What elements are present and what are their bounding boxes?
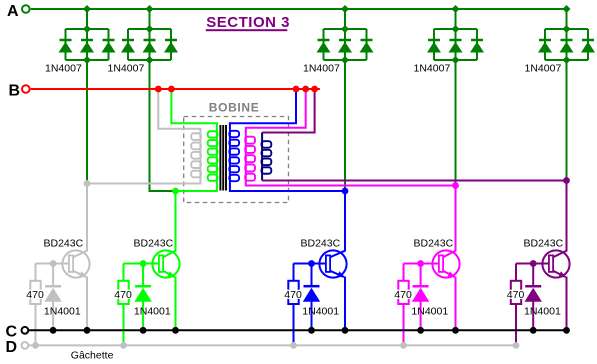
svg-text:Gâchette: Gâchette [71, 349, 114, 361]
svg-text:470: 470 [394, 289, 412, 301]
svg-text:BOBINE: BOBINE [209, 101, 260, 115]
svg-text:BD243C: BD243C [44, 238, 84, 250]
svg-text:BD243C: BD243C [414, 238, 454, 250]
svg-text:BD243C: BD243C [524, 238, 564, 250]
svg-text:1N4007: 1N4007 [414, 62, 451, 74]
svg-text:1N4007: 1N4007 [525, 62, 562, 74]
svg-text:1N4001: 1N4001 [44, 306, 81, 318]
svg-text:1N4007: 1N4007 [45, 62, 82, 74]
svg-text:1N4001: 1N4001 [411, 306, 448, 318]
svg-text:470: 470 [26, 289, 44, 301]
svg-text:D: D [6, 339, 18, 356]
svg-text:1N4001: 1N4001 [524, 306, 561, 318]
svg-text:BD243C: BD243C [301, 238, 341, 250]
svg-text:A: A [7, 3, 19, 20]
svg-text:1N4007: 1N4007 [108, 62, 145, 74]
svg-text:470: 470 [507, 289, 525, 301]
svg-text:BD243C: BD243C [134, 238, 174, 250]
svg-text:470: 470 [114, 289, 132, 301]
svg-text:1N4001: 1N4001 [134, 306, 171, 318]
svg-text:B: B [9, 82, 21, 99]
svg-text:470: 470 [284, 289, 302, 301]
svg-text:1N4007: 1N4007 [303, 62, 340, 74]
svg-text:SECTION 3: SECTION 3 [206, 14, 290, 31]
svg-text:1N4001: 1N4001 [302, 306, 339, 318]
